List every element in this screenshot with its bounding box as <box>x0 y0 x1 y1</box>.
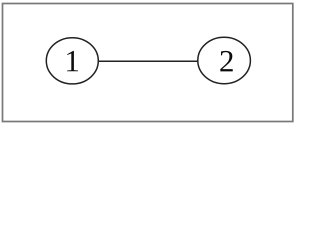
node 1 <box>46 38 98 84</box>
node 2 <box>198 37 251 83</box>
wire <box>98 60 197 62</box>
